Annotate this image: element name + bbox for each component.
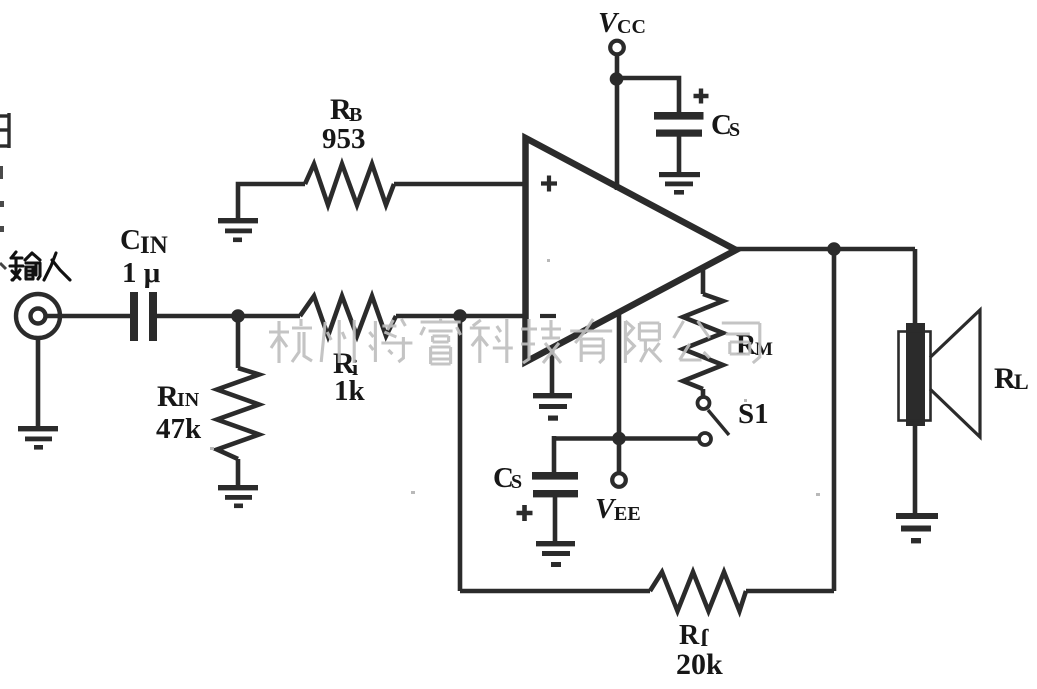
wire speaker to ground bbox=[913, 426, 918, 513]
label R_f 20k bbox=[676, 620, 723, 681]
resistor R_M bbox=[683, 294, 723, 389]
resistor R_i bbox=[300, 296, 396, 336]
switch S1 arm bbox=[708, 410, 729, 435]
left-edge tick marks bbox=[0, 166, 6, 269]
wire R_B to op-amp non-inverting input bbox=[394, 182, 524, 187]
ground (R_B) bbox=[218, 218, 258, 242]
label C_S top bbox=[711, 109, 740, 141]
wire R_M stub from op-amp bbox=[701, 266, 706, 294]
svg-text:CC: CC bbox=[617, 16, 646, 38]
node junction V_EE branch bbox=[612, 432, 626, 446]
resistor R_f bbox=[650, 572, 746, 611]
wire C_IN to R_i bbox=[157, 314, 300, 319]
label V_CC bbox=[598, 7, 646, 39]
svg-text:EE: EE bbox=[614, 503, 641, 525]
svg-text:IN: IN bbox=[140, 232, 168, 259]
wire junction down to R_IN bbox=[236, 316, 241, 368]
wire C_S top to ground bbox=[677, 136, 682, 172]
wire R_M to switch bbox=[701, 389, 706, 397]
wire R_B ground stub bbox=[238, 184, 305, 218]
wire V_CC branch to C_S bbox=[616, 78, 679, 113]
svg-text:R: R bbox=[679, 620, 700, 651]
switch S1 top contact bbox=[698, 397, 710, 409]
svg-text:953: 953 bbox=[322, 123, 366, 155]
label R_L bbox=[994, 362, 1029, 395]
svg-text:R: R bbox=[994, 362, 1016, 395]
watermark 杭州将睿科技有限公司 bbox=[269, 318, 760, 364]
svg-text:20k: 20k bbox=[676, 648, 723, 681]
capacitor C_S (bottom) plates bbox=[532, 472, 578, 497]
resistor R_B bbox=[305, 164, 394, 205]
ground (op-amp) bbox=[533, 393, 572, 421]
wire feedback up to inverting node bbox=[458, 316, 463, 591]
label R_IN 47k bbox=[156, 380, 202, 445]
node junction output bbox=[827, 242, 841, 256]
label S1 bbox=[738, 398, 769, 430]
svg-text:R: R bbox=[157, 380, 179, 413]
label R_M bbox=[736, 330, 773, 361]
wire R_IN to ground bbox=[236, 459, 241, 485]
capacitor C_S (top) plates bbox=[654, 112, 704, 137]
capacitor C_IN plates bbox=[130, 292, 157, 341]
svg-text:47k: 47k bbox=[156, 413, 202, 445]
ground (R_IN) bbox=[218, 485, 258, 508]
svg-text:1 μ: 1 μ bbox=[122, 257, 161, 289]
svg-text:S: S bbox=[729, 119, 740, 141]
resistor R_IN bbox=[217, 368, 259, 459]
svg-text:1k: 1k bbox=[334, 375, 366, 407]
label 输入 (input) bbox=[10, 252, 70, 280]
wire feedback from output junction down bbox=[832, 249, 837, 591]
ground (speaker) bbox=[896, 513, 938, 543]
op-amp minus input marking bbox=[540, 314, 556, 318]
op-amp plus input marking bbox=[541, 176, 557, 192]
left-edge clipped character fragment bbox=[0, 113, 9, 148]
ground (C_S bottom) bbox=[536, 541, 575, 567]
label C_S bottom bbox=[493, 462, 522, 494]
wire V_CC down to op-amp bbox=[615, 54, 620, 190]
wire feedback bottom left segment bbox=[460, 589, 650, 594]
wire connector to ground bbox=[36, 338, 41, 426]
terminal V_EE bbox=[612, 473, 626, 487]
wire V_EE branch rail bbox=[554, 436, 700, 441]
input connector J1 outer ring bbox=[16, 294, 60, 338]
label R_i 1k bbox=[333, 347, 366, 407]
node junction feedback tap bbox=[453, 309, 467, 323]
svg-text:IN: IN bbox=[177, 389, 200, 411]
node junction V_CC branch bbox=[610, 72, 624, 86]
label C_IN bbox=[120, 224, 168, 289]
node junction at R_IN tap bbox=[231, 309, 245, 323]
faint scan speckles bbox=[210, 259, 820, 496]
wire op-amp output bbox=[736, 247, 915, 252]
polarity plus of C_S bottom bbox=[517, 505, 533, 521]
wire op-amp ground stub bbox=[550, 349, 555, 393]
op-amp U1 triangle bbox=[526, 138, 737, 362]
polarity plus of C_S top bbox=[694, 89, 709, 104]
svg-text:C: C bbox=[120, 224, 141, 256]
label V_EE bbox=[595, 493, 641, 525]
speaker R_L frame bbox=[899, 332, 931, 421]
speaker R_L driver core bbox=[906, 323, 925, 426]
ground (C_S top) bbox=[659, 172, 700, 195]
wire connector to C_IN bbox=[38, 314, 131, 319]
input connector J1 center pin bbox=[31, 309, 46, 324]
wire C_S bottom to ground bbox=[553, 497, 558, 541]
svg-text:L: L bbox=[1014, 369, 1029, 394]
wire R_i to op-amp inverting input bbox=[396, 314, 524, 319]
terminal V_CC bbox=[610, 41, 624, 55]
label R_B 953 bbox=[322, 93, 366, 155]
wire rail down to C_S bottom bbox=[552, 436, 557, 472]
speaker R_L horn bbox=[930, 310, 980, 437]
switch S1 bottom contact bbox=[699, 433, 711, 445]
wire feedback bottom right segment bbox=[746, 589, 834, 594]
wire output down to speaker bbox=[913, 249, 918, 326]
wire V_EE from op-amp down bbox=[617, 311, 622, 474]
svg-text:S: S bbox=[511, 471, 522, 493]
svg-text:S1: S1 bbox=[738, 398, 769, 430]
ground (input connector) bbox=[18, 426, 58, 450]
